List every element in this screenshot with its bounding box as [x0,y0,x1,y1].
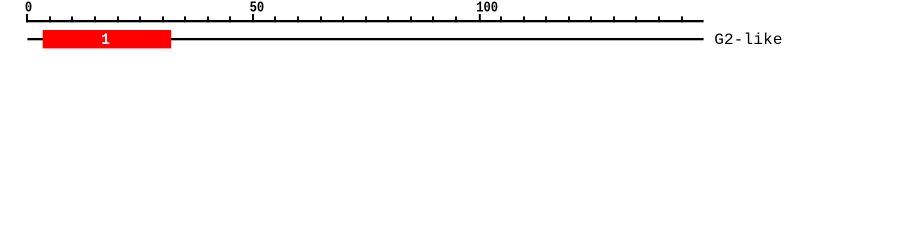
svg-text:0: 0 [25,0,32,16]
svg-text:1: 1 [101,30,110,49]
svg-text:50: 50 [250,0,265,16]
svg-text:G2-like: G2-like [714,31,782,49]
svg-text:100: 100 [476,0,498,16]
